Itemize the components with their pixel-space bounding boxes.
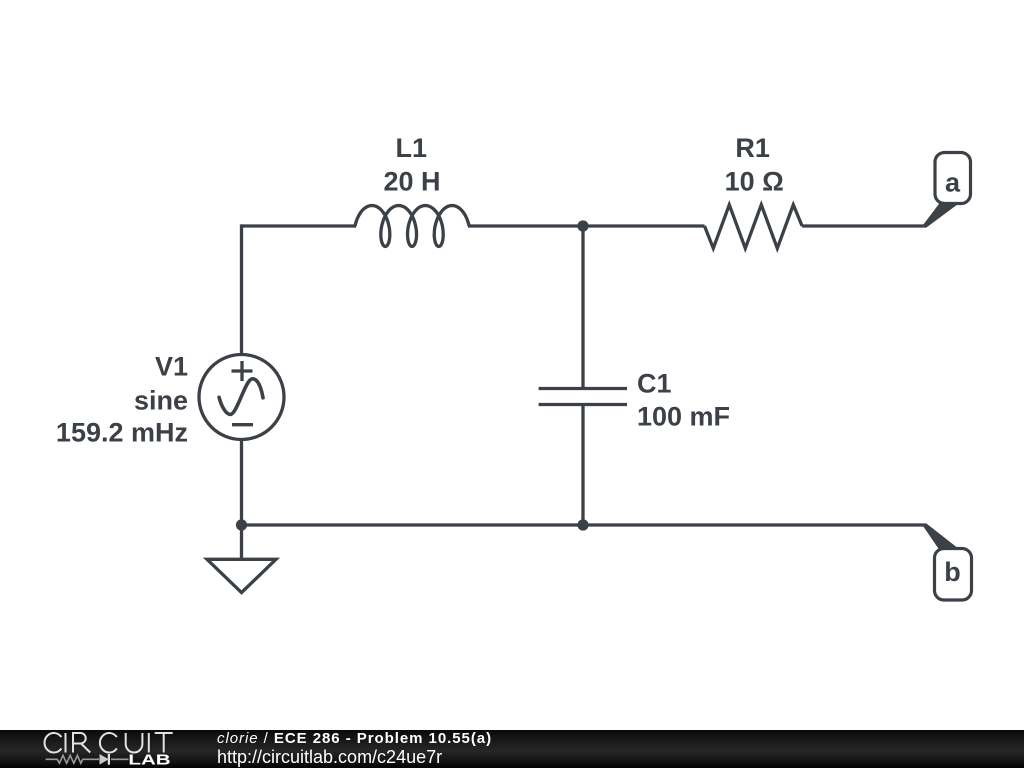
- terminal a wedge: [923, 201, 957, 227]
- V1 plus sign: [232, 361, 253, 381]
- svg-text:V1: V1: [155, 352, 188, 382]
- svg-text:C1: C1: [637, 369, 672, 399]
- capacitor C1 top plate: [539, 387, 627, 390]
- logo letter U: [126, 733, 143, 752]
- wire V1 bottom lead: [240, 440, 243, 526]
- svg-text:sine: sine: [134, 385, 188, 415]
- wire middle vertical lower (C1 to bottom): [581, 405, 584, 526]
- svg-text:159.2 mHz: 159.2 mHz: [56, 418, 188, 448]
- svg-text:LAB: LAB: [128, 751, 170, 768]
- ground symbol: [207, 525, 276, 593]
- svg-text:100 mF: 100 mF: [637, 402, 730, 432]
- junction node bottom left (V1/ground): [236, 519, 247, 530]
- wire bottom horizontal: [242, 523, 927, 526]
- terminal b box: [935, 549, 972, 601]
- logo resistor squiggle: [46, 755, 99, 763]
- inductor L1: [355, 206, 469, 247]
- svg-text:10 Ω: 10 Ω: [725, 167, 784, 197]
- logo diode triangle: [100, 754, 109, 765]
- voltage source V1 circle: [199, 355, 284, 440]
- svg-text:20 H: 20 H: [383, 167, 440, 197]
- footer bar: [0, 730, 1024, 768]
- logo letter C2: [100, 733, 117, 753]
- svg-text:R1: R1: [735, 133, 770, 163]
- V1 minus sign: [232, 423, 253, 426]
- logo diode bar: [108, 754, 110, 765]
- logo diode line: [111, 758, 129, 760]
- wire top-left horizontal: [242, 224, 357, 227]
- wire between node and R1: [583, 224, 705, 227]
- wire middle vertical upper (node to C1): [581, 226, 584, 389]
- terminal b wedge: [923, 523, 959, 549]
- svg-text:b: b: [944, 557, 961, 587]
- terminal a box: [935, 153, 971, 204]
- CircuitLab logo: [0, 730, 190, 768]
- wire R1 to terminal a: [802, 224, 926, 227]
- junction node top (L1/C1/R1): [577, 220, 588, 231]
- svg-text:a: a: [945, 168, 961, 198]
- logo letter R: [73, 733, 90, 753]
- footer line 1: [217, 730, 492, 747]
- svg-text:L1: L1: [396, 133, 428, 163]
- logo letter I2: [148, 733, 150, 753]
- junction node bottom middle (C1): [577, 519, 588, 530]
- wire between L1 and node: [468, 224, 583, 227]
- wire left vertical (V1 top lead): [240, 224, 243, 355]
- logo letter C: [45, 733, 62, 753]
- footer line 2: [217, 747, 442, 768]
- logo letter T: [155, 733, 173, 753]
- capacitor C1 bottom plate: [539, 403, 627, 406]
- logo letter I: [65, 733, 67, 753]
- V1 sine wave: [219, 379, 263, 415]
- resistor R1: [705, 205, 803, 249]
